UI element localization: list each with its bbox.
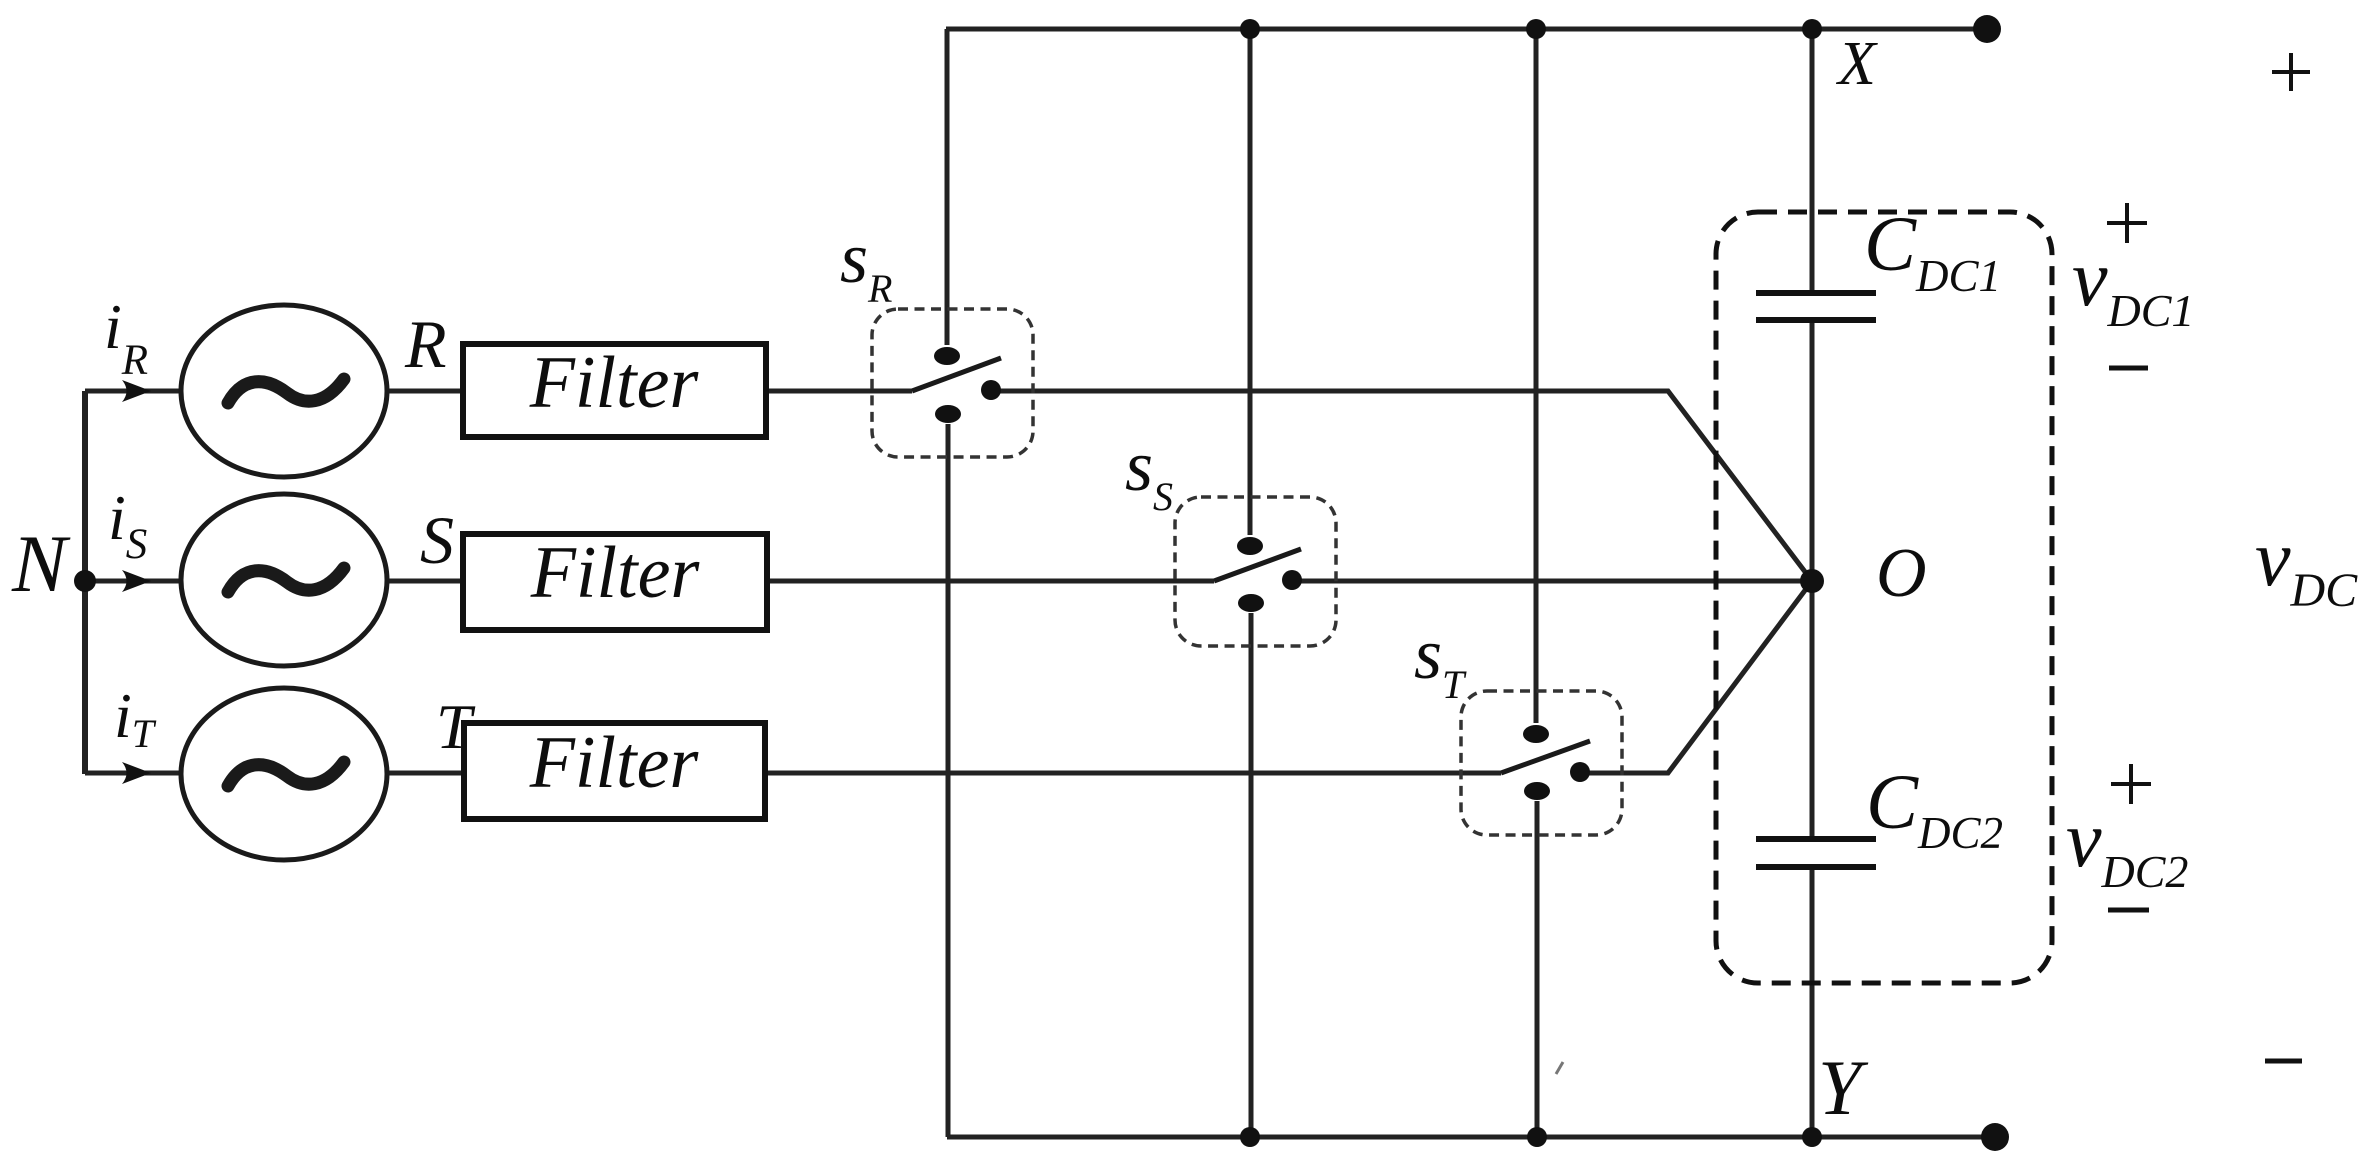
junction bottom rail bus S bbox=[1240, 1127, 1260, 1147]
terminal negative bbox=[1981, 1123, 2009, 1151]
junction top rail bus T bbox=[1526, 19, 1546, 39]
label minus vDC1 bbox=[2109, 366, 2148, 371]
dashed enclosure DC link bbox=[1716, 212, 2052, 983]
label plus vDC bbox=[2272, 53, 2310, 91]
label plus vDC1 bbox=[2107, 203, 2147, 243]
wire N to source T bbox=[85, 771, 181, 776]
wire DC bus upper bbox=[1810, 29, 1815, 293]
label minus vDC bbox=[2265, 1059, 2302, 1064]
wire source S to filter bbox=[387, 579, 463, 584]
wire N to source R bbox=[85, 389, 181, 394]
node N bbox=[74, 570, 96, 592]
capacitor C_DC1 bbox=[1756, 293, 1876, 320]
speck artifact bbox=[1556, 1062, 1563, 1074]
AC source VS bbox=[181, 494, 387, 666]
label plus vDC2 bbox=[2111, 764, 2151, 804]
wire filter S to switch sS bbox=[767, 579, 1214, 584]
filter block R bbox=[463, 342, 766, 437]
svg-text:Filter: Filter bbox=[529, 342, 700, 424]
wire bottom rail Y bbox=[947, 1135, 1995, 1140]
wire bus R lower bbox=[946, 424, 951, 1137]
svg-text:X: X bbox=[1835, 30, 1878, 98]
node O bbox=[1800, 569, 1824, 593]
svg-text:T: T bbox=[436, 691, 476, 762]
wire bus T lower bbox=[1535, 801, 1540, 1137]
arrow current iT bbox=[122, 762, 151, 784]
switch sR bbox=[872, 309, 1033, 457]
svg-text:O: O bbox=[1876, 535, 1927, 612]
switch sT bbox=[1461, 691, 1622, 835]
wire top rail X bbox=[946, 27, 1987, 32]
wire N to source S bbox=[85, 579, 181, 584]
wire filter T to switch sT bbox=[765, 771, 1501, 776]
svg-text:R: R bbox=[404, 306, 447, 382]
junction top rail DC bus node X bbox=[1802, 19, 1822, 39]
wire filter R to switch sR bbox=[766, 389, 912, 394]
wire bus S lower bbox=[1249, 613, 1254, 1137]
junction bottom rail bus T bbox=[1527, 1127, 1547, 1147]
wire left neutral vertical N bbox=[82, 391, 88, 774]
AC source VR bbox=[181, 305, 387, 477]
wire source R to filter bbox=[387, 389, 463, 394]
wire sR output to node O bbox=[991, 391, 1812, 581]
wire DC bus lower bbox=[1810, 867, 1815, 1137]
filter block S bbox=[463, 532, 767, 630]
AC source VT bbox=[181, 688, 387, 860]
switch sS bbox=[1175, 497, 1336, 646]
wire bus T upper bbox=[1534, 29, 1539, 723]
wire sS output to node O bbox=[1292, 579, 1812, 584]
svg-text:N: N bbox=[11, 518, 71, 609]
wire bus R upper bbox=[945, 29, 950, 345]
wire sT output to node O bbox=[1580, 581, 1812, 773]
svg-text:Filter: Filter bbox=[529, 722, 700, 804]
arrow current iS bbox=[122, 570, 151, 592]
junction top rail bus S bbox=[1240, 19, 1260, 39]
svg-text:Filter: Filter bbox=[530, 532, 701, 614]
filter block T bbox=[464, 722, 765, 819]
wire source T to filter bbox=[387, 771, 464, 776]
junction bottom rail DC bus node Y bbox=[1802, 1127, 1822, 1147]
wire DC bus middle bbox=[1810, 320, 1815, 839]
svg-text:S: S bbox=[420, 502, 454, 578]
label minus vDC2 bbox=[2108, 908, 2149, 913]
svg-text:Y: Y bbox=[1818, 1044, 1869, 1131]
terminal positive bbox=[1973, 15, 2001, 43]
arrow current iR bbox=[122, 380, 151, 402]
wire bus S upper bbox=[1248, 29, 1253, 535]
capacitor C_DC2 bbox=[1756, 839, 1876, 867]
